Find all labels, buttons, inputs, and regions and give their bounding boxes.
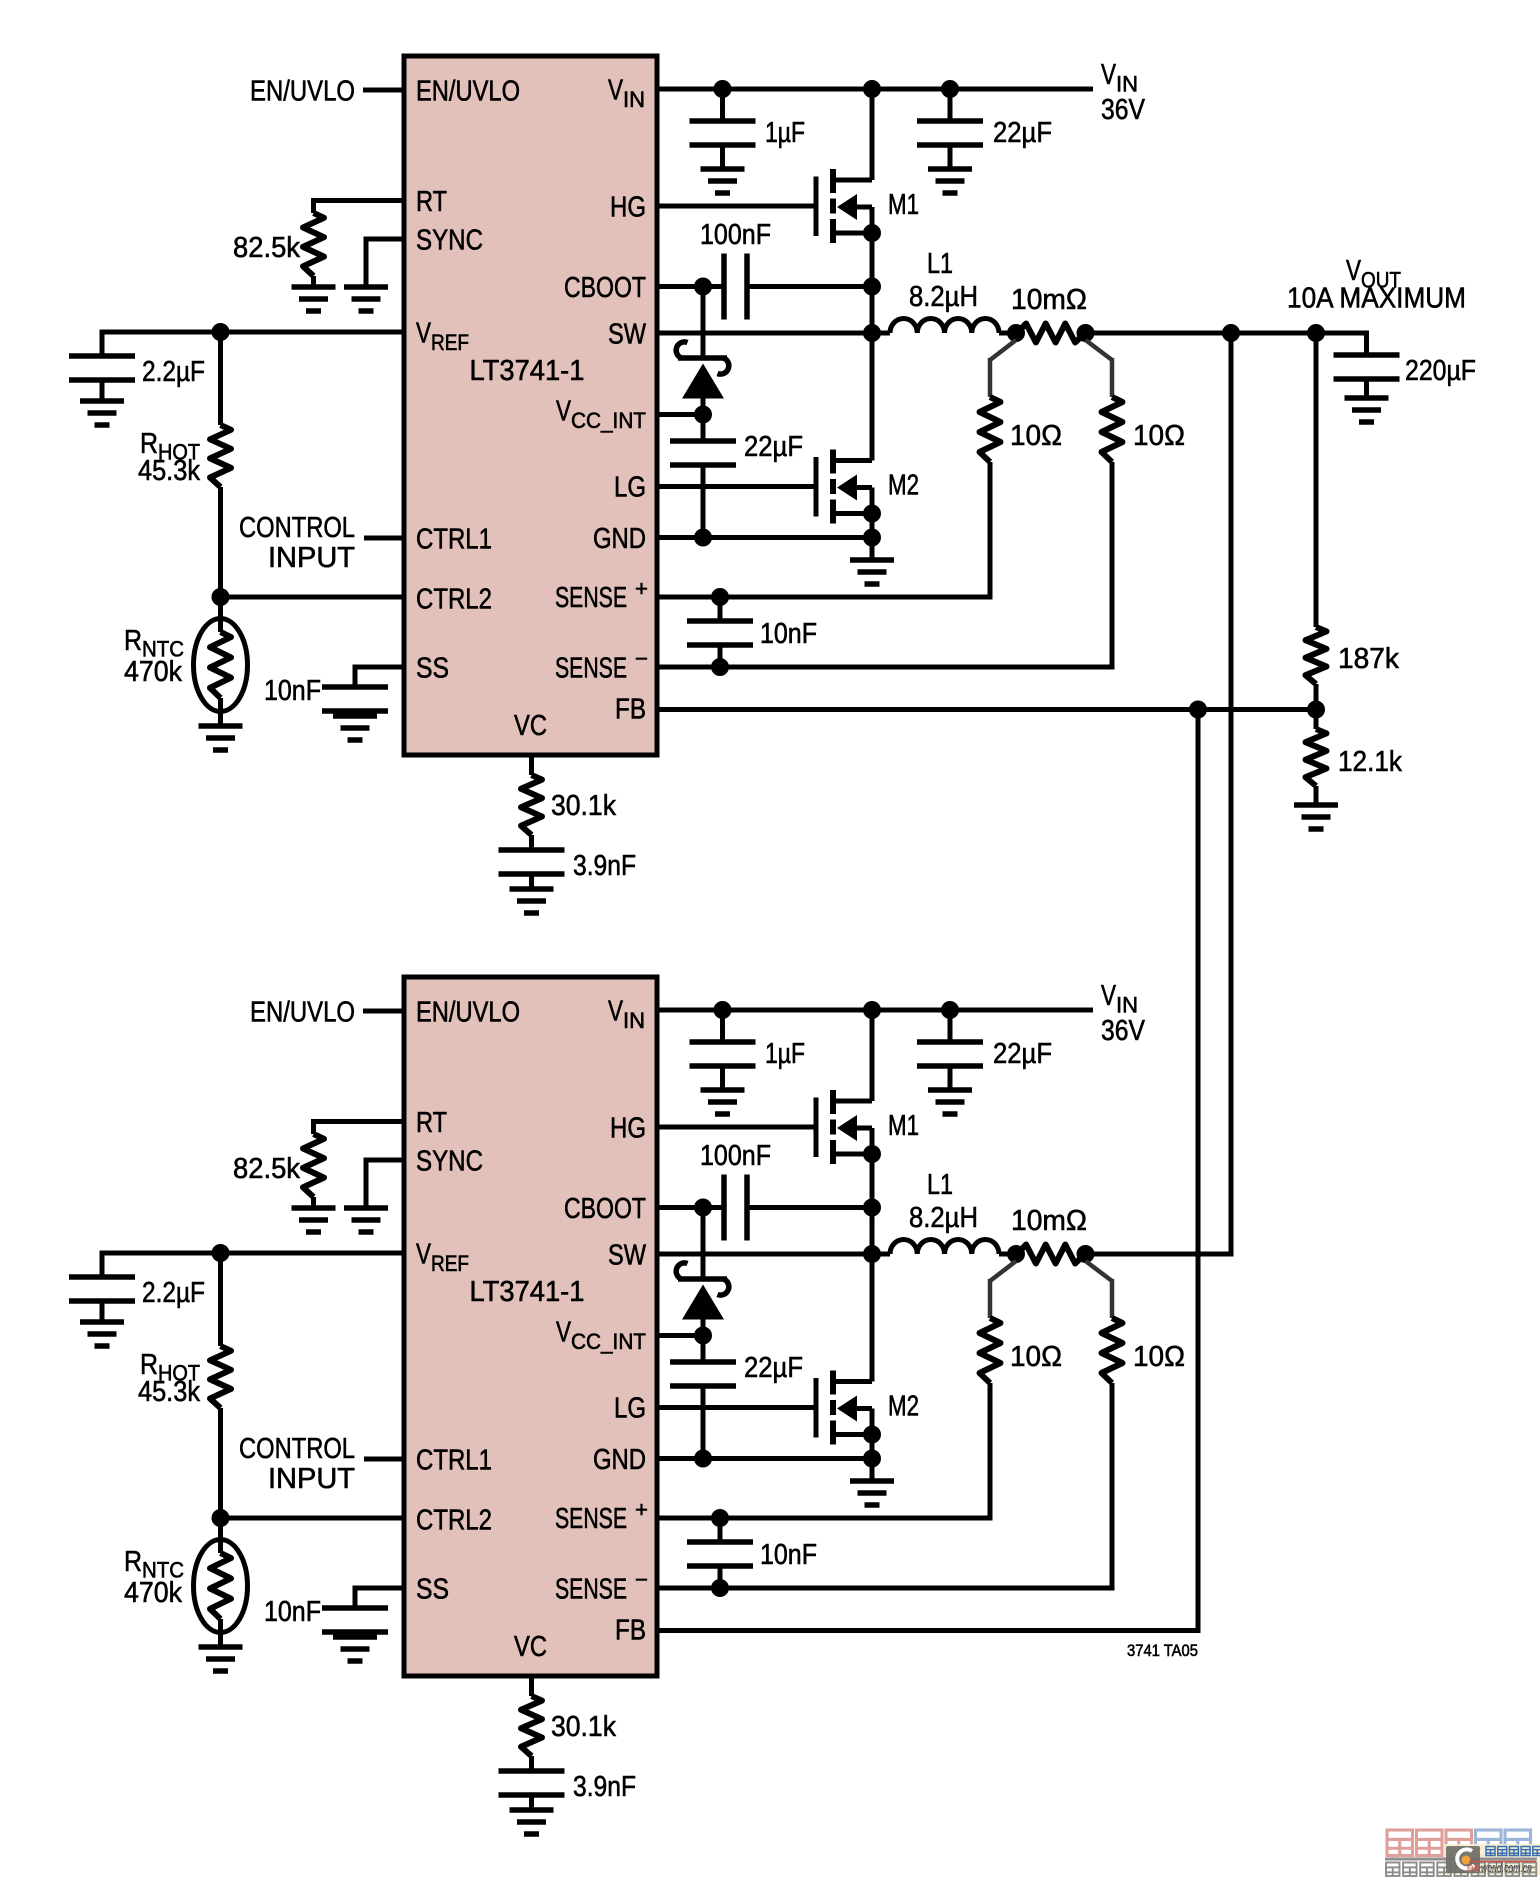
svg-text:world.com.cn: world.com.cn	[1481, 1860, 1532, 1875]
svg-text:1µF: 1µF	[765, 117, 805, 149]
ground for 220uF	[1345, 398, 1389, 422]
svg-text:SENSE: SENSE	[555, 1574, 627, 1606]
wire CBOOT cap to SW node A	[747, 284, 872, 289]
ground for M2 source A	[850, 560, 894, 584]
wire inductor to shunt B	[999, 1252, 1018, 1257]
capacitor C-22uF-inB	[917, 1042, 983, 1066]
diode D1B schottky	[676, 1263, 729, 1320]
wire SENSE+ A	[657, 595, 993, 600]
wire FB link vertical (shared FB net)	[1196, 710, 1201, 1634]
capacitor C-SENSEA 10nF	[687, 621, 753, 645]
svg-text:V: V	[556, 1317, 572, 1349]
svg-text:SENSE: SENSE	[555, 582, 627, 614]
resistor R-SHUNTA 10mohm	[1017, 324, 1085, 343]
capacitor C-1uFB	[690, 1042, 756, 1066]
wire CBOOT A	[657, 284, 724, 289]
svg-text:IN: IN	[623, 1008, 645, 1033]
wire CBOOT B	[657, 1205, 724, 1210]
wire VREF A	[102, 330, 404, 335]
node VCC_INT junction A	[694, 406, 712, 424]
watermark logo mark	[1446, 1846, 1480, 1873]
ground for RT resistor B	[292, 1208, 336, 1232]
svg-text:R: R	[124, 625, 142, 657]
wire VREF to RHOT B	[218, 1253, 223, 1346]
svg-text:45.3k: 45.3k	[138, 1376, 200, 1408]
node VIN junction at M1 drain B	[863, 1001, 881, 1019]
svg-text:36V: 36V	[1101, 1015, 1146, 1047]
wire VIN to 1uF B	[720, 1010, 725, 1042]
inductor L1A 8.2uH	[890, 318, 999, 333]
svg-text:M2: M2	[888, 470, 919, 502]
svg-text:CTRL2: CTRL2	[416, 1505, 492, 1537]
wire 30.1k to 3.9nF A	[529, 835, 534, 850]
wire VIN rail A	[657, 87, 1093, 92]
svg-text:RT: RT	[416, 1107, 447, 1139]
ground for 2.2uF B	[80, 1322, 124, 1346]
wire SS cap to ground B	[353, 1632, 358, 1637]
svg-text:470k: 470k	[124, 1577, 182, 1609]
ground for input 22uF B	[928, 1090, 972, 1114]
wire SENSE+ to 10nF B	[718, 1518, 723, 1542]
wire 12.1k to ground	[1314, 786, 1319, 805]
svg-text:LT3741-1: LT3741-1	[470, 1276, 585, 1308]
node shunt right junction B	[1077, 1245, 1095, 1263]
wire 22uF to ground B	[948, 1066, 953, 1090]
wire VOUT rail	[1086, 331, 1316, 336]
ground for RNTC A	[199, 726, 243, 750]
op-amp/IC UA LT3741-1 body	[404, 56, 657, 755]
svg-text:45.3k: 45.3k	[138, 455, 200, 487]
svg-text:SS: SS	[416, 1574, 449, 1606]
wire 220uF to ground	[1364, 379, 1369, 398]
wire FB node to 12.1k	[1314, 710, 1319, 730]
wire VCC_INT pin B	[657, 1333, 703, 1338]
wire diode anode to VCC_INT A	[701, 399, 706, 442]
svg-text:10nF: 10nF	[760, 618, 817, 650]
wire SENSE- A	[657, 665, 1115, 670]
wire CBOOT to diode cathode B	[701, 1208, 706, 1280]
node VREF junction B	[212, 1244, 230, 1262]
node VIN junction at 22uF B	[941, 1001, 959, 1019]
node SENSE- junction A	[711, 658, 729, 676]
svg-text:V: V	[1101, 980, 1117, 1012]
svg-text:SYNC: SYNC	[416, 1146, 483, 1178]
node CTRL2 junction A	[212, 588, 230, 606]
capacitor C-OUT 220uF	[1334, 355, 1400, 379]
svg-text:22µF: 22µF	[744, 1352, 803, 1384]
wire RT resistor to ground A	[311, 276, 316, 287]
wire RHOT to CTRL2 A	[218, 487, 223, 597]
ground for 2.2uF A	[80, 401, 124, 425]
svg-text:82.5k: 82.5k	[233, 1153, 300, 1185]
resistor R-FB1 187k	[1306, 627, 1327, 684]
wire kelvin left diagonal A	[990, 340, 1016, 360]
svg-text:CONTROL: CONTROL	[239, 1433, 355, 1465]
wire EN/UVLO B	[363, 1009, 404, 1014]
svg-text:GND: GND	[593, 1444, 646, 1476]
resistor R-S1B 10ohm	[980, 1318, 1001, 1383]
ground for SYNC B	[344, 1208, 388, 1232]
svg-text:220µF: 220µF	[1405, 355, 1476, 387]
wire 187k to FB node	[1314, 684, 1319, 710]
wire SW A	[657, 331, 890, 336]
wire LG gate A	[657, 484, 814, 489]
transistor M1A	[816, 169, 872, 243]
node VIN junction at M1 drain A	[863, 80, 881, 98]
svg-text:SW: SW	[608, 1240, 647, 1272]
wire FB B	[657, 1628, 1201, 1633]
wire VREF to 2.2uF B	[100, 1251, 105, 1278]
svg-text:V: V	[1101, 59, 1117, 91]
wire SENSE+ B	[657, 1516, 993, 1521]
svg-text:CC_INT: CC_INT	[571, 1329, 646, 1354]
resistor R-S1A 10ohm	[980, 397, 1001, 462]
ground for SYNC A	[344, 287, 388, 311]
wire VOUT to 187k	[1314, 333, 1319, 627]
svg-text:470k: 470k	[124, 656, 182, 688]
node CBOOT diode junction B	[694, 1199, 712, 1217]
svg-text:IN: IN	[1116, 993, 1138, 1018]
capacitor C-SENSEB 10nF	[687, 1542, 753, 1566]
watermark logo background	[1444, 1844, 1540, 1875]
svg-text:SENSE: SENSE	[555, 1503, 627, 1535]
ground for SS cap A	[333, 716, 377, 740]
svg-text:EN/UVLO: EN/UVLO	[250, 997, 355, 1029]
wire M1 drain to VIN B	[870, 1010, 875, 1101]
svg-text:−: −	[635, 1567, 648, 1592]
watermark divider line	[1385, 1858, 1537, 1861]
wire VREF to RHOT A	[218, 332, 223, 425]
wire bottom output to VOUT link	[1086, 1252, 1234, 1257]
watermark slogan text (gray)	[1386, 1863, 1400, 1877]
capacitor C-VCCA 22uF	[670, 441, 736, 465]
ground for VC network B	[510, 1810, 554, 1834]
wire VOUT link vertical (top output to bottom output)	[1229, 333, 1234, 1257]
wire R-S2 to SENSE- B	[1110, 1383, 1115, 1588]
wire SYNC A	[366, 237, 404, 242]
svg-text:CTRL1: CTRL1	[416, 524, 492, 556]
wire CTRL2 to RNTC A	[218, 597, 223, 632]
wire R-S1 to SENSE+ B	[988, 1383, 993, 1518]
node VOUT junction to link	[1222, 324, 1240, 342]
wire M1 source down to SW B	[870, 1128, 875, 1254]
svg-text:CTRL1: CTRL1	[416, 1445, 492, 1477]
wire RNTC to ground B	[218, 1619, 223, 1647]
wire VC B	[529, 1676, 534, 1696]
wire VIN to 22uF A	[948, 89, 953, 121]
svg-text:10Ω: 10Ω	[1010, 420, 1062, 452]
capacitor C-SSA 10nF	[322, 687, 388, 711]
resistor R-RTB 82.5k	[303, 1134, 324, 1197]
svg-text:LG: LG	[614, 472, 646, 504]
svg-text:LG: LG	[614, 1393, 646, 1425]
diode D1A schottky	[676, 342, 729, 399]
node VIN junction at 1uF B	[714, 1001, 732, 1019]
ground for RNTC B	[199, 1647, 243, 1671]
node GND junction at VCC cap B	[694, 1450, 712, 1468]
wire HG gate A	[657, 204, 814, 209]
capacitor C-22uF-inA	[917, 121, 983, 145]
svg-text:2.2µF: 2.2µF	[142, 356, 205, 388]
svg-text:10nF: 10nF	[760, 1539, 817, 1571]
thermistor R-NTCA 470k	[194, 619, 248, 712]
svg-text:30.1k: 30.1k	[551, 790, 616, 822]
wire HG gate B	[657, 1125, 814, 1130]
wire 2.2uF to ground B	[100, 1301, 105, 1322]
wire CBOOT cap to SW node B	[747, 1205, 872, 1210]
svg-text:EN/UVLO: EN/UVLO	[416, 997, 520, 1029]
svg-text:RT: RT	[416, 186, 447, 218]
resistor R-VCB 30.1k	[521, 1696, 542, 1756]
capacitor C-VCA 3.9nF	[499, 850, 565, 874]
svg-text:SS: SS	[416, 653, 449, 685]
svg-text:10A MAXIMUM: 10A MAXIMUM	[1287, 283, 1466, 315]
wire M1 drain to VIN A	[870, 89, 875, 180]
wire CTRL2 A	[221, 595, 405, 600]
svg-text:HG: HG	[610, 192, 646, 224]
ground for 12.1k	[1294, 805, 1338, 829]
wire CTRL2 to RNTC B	[218, 1518, 223, 1553]
wire VREF to 2.2uF A	[100, 330, 105, 357]
node M1 source junction B	[863, 1145, 881, 1163]
node CBOOT cap right junction B	[863, 1199, 881, 1217]
wire CTRL1 B	[364, 1457, 404, 1462]
svg-text:V: V	[556, 396, 572, 428]
svg-text:+: +	[635, 1497, 648, 1522]
wire RT resistor to ground B	[311, 1197, 316, 1208]
svg-text:10mΩ: 10mΩ	[1011, 1205, 1087, 1237]
wire M2 drain to SW A	[870, 333, 875, 461]
svg-text:SENSE: SENSE	[555, 653, 627, 685]
capacitor C-VCCB 22uF	[670, 1362, 736, 1386]
svg-text:CBOOT: CBOOT	[564, 272, 646, 304]
resistor R-RTA 82.5k	[303, 213, 324, 276]
svg-text:EN/UVLO: EN/UVLO	[250, 76, 355, 108]
wire 10nF to SENSE- B	[718, 1566, 723, 1588]
wire VCC cap to GND rail A	[701, 465, 706, 538]
node CBOOT diode junction A	[694, 278, 712, 296]
capacitor C-VCB 3.9nF	[499, 1771, 565, 1795]
wire 3.9nF to ground B	[529, 1795, 534, 1810]
node CTRL2 junction B	[212, 1509, 230, 1527]
node FB divider junction A	[1307, 701, 1325, 719]
wire CTRL2 B	[221, 1516, 405, 1521]
transistor M2B	[816, 1371, 872, 1445]
svg-text:VC: VC	[514, 1631, 547, 1663]
svg-text:187k: 187k	[1338, 643, 1399, 675]
svg-text:36V: 36V	[1101, 94, 1146, 126]
svg-text:R: R	[124, 1546, 142, 1578]
capacitor C-VREFB 2.2uF	[69, 1277, 135, 1301]
svg-text:M2: M2	[888, 1391, 919, 1423]
svg-text:2.2µF: 2.2µF	[142, 1277, 205, 1309]
wire 30.1k to 3.9nF B	[529, 1756, 534, 1771]
node M2 source junction A	[863, 505, 881, 523]
node VOUT junction to divider	[1307, 324, 1325, 342]
wire RT A	[314, 198, 405, 203]
wire M2 source to ground B	[870, 1409, 875, 1459]
watermark brand text (pink)	[1387, 1830, 1413, 1856]
svg-text:CONTROL: CONTROL	[239, 512, 355, 544]
svg-text:22µF: 22µF	[993, 1038, 1052, 1070]
wire SW B	[657, 1252, 890, 1257]
node VIN junction at 22uF A	[941, 80, 959, 98]
wire SS A	[355, 665, 404, 670]
svg-text:IN: IN	[623, 87, 645, 112]
node SENSE+ junction B	[711, 1509, 729, 1527]
node M1 source junction A	[863, 224, 881, 242]
svg-text:GND: GND	[593, 523, 646, 555]
wire kelvin right diagonal B	[1086, 1261, 1113, 1281]
op-amp/IC UB LT3741-1 body	[404, 977, 657, 1676]
wire diode anode to VCC_INT B	[701, 1320, 706, 1363]
wire CBOOT to diode cathode A	[701, 287, 706, 359]
svg-text:V: V	[416, 1239, 432, 1271]
ground for RT resistor A	[292, 287, 336, 311]
svg-text:L1: L1	[927, 248, 953, 280]
wire SYNC B	[366, 1158, 404, 1163]
wire M2 source to ground A	[870, 488, 875, 538]
svg-text:REF: REF	[431, 330, 469, 355]
svg-text:V: V	[608, 75, 624, 107]
node M2 source at GND rail A	[863, 529, 881, 547]
node shunt left junction A	[1007, 324, 1025, 342]
svg-text:IN: IN	[1116, 72, 1138, 97]
svg-text:1µF: 1µF	[765, 1038, 805, 1070]
node M2 source at GND rail B	[863, 1450, 881, 1468]
svg-text:SYNC: SYNC	[416, 225, 483, 257]
capacitor C-BOOTB 100nF	[724, 1175, 747, 1241]
watermark brand text (blue)	[1476, 1830, 1502, 1856]
svg-text:INPUT: INPUT	[268, 1463, 355, 1495]
wire VIN to 22uF B	[948, 1010, 953, 1042]
watermark logo text line1 (blue CJK)	[1486, 1847, 1495, 1856]
wire M1 source down to SW A	[870, 207, 875, 333]
svg-text:100nF: 100nF	[700, 219, 771, 251]
svg-text:3.9nF: 3.9nF	[573, 850, 636, 882]
capacitor C-VREFA 2.2uF	[69, 356, 135, 380]
svg-text:REF: REF	[431, 1251, 469, 1276]
wire RT B	[314, 1119, 405, 1124]
svg-text:10nF: 10nF	[264, 675, 321, 707]
svg-text:CTRL2: CTRL2	[416, 584, 492, 616]
wire LG gate B	[657, 1405, 814, 1410]
ground for M2 source B	[850, 1481, 894, 1505]
svg-text:VC: VC	[514, 710, 547, 742]
wire 1uF to ground A	[720, 145, 725, 169]
capacitor C-1uFA	[690, 121, 756, 145]
svg-text:CC_INT: CC_INT	[571, 408, 646, 433]
wire SENSE+ to 10nF A	[718, 597, 723, 621]
wire R-S1 to SENSE+ A	[988, 462, 993, 597]
svg-text:SW: SW	[608, 319, 647, 351]
svg-text:V: V	[416, 318, 432, 350]
node VCC_INT junction B	[694, 1327, 712, 1345]
node shunt left junction B	[1007, 1245, 1025, 1263]
wire 10nF to SENSE- A	[718, 645, 723, 667]
svg-text:FB: FB	[615, 1615, 646, 1647]
node GND junction at VCC cap A	[694, 529, 712, 547]
resistor R-S2A 10ohm	[1102, 397, 1123, 462]
ground for VC network A	[510, 889, 554, 913]
node shunt right junction A	[1077, 324, 1095, 342]
ground for input 22uF A	[928, 169, 972, 193]
node VIN junction at 1uF A	[714, 80, 732, 98]
wire bottom FB corner	[1196, 1631, 1201, 1634]
thermistor R-NTCB 470k	[194, 1540, 248, 1633]
transistor M2A	[816, 450, 872, 524]
wire GND pin rail B	[657, 1456, 872, 1461]
wire RHOT to CTRL2 B	[218, 1408, 223, 1518]
svg-text:M1: M1	[888, 189, 919, 221]
wire VCC_INT pin A	[657, 412, 703, 417]
node SW junction A	[863, 324, 881, 342]
resistor R-S2B 10ohm	[1102, 1318, 1123, 1383]
svg-text:L1: L1	[927, 1169, 953, 1201]
wire VCC cap to GND rail B	[701, 1386, 706, 1459]
node M2 source junction B	[863, 1426, 881, 1444]
svg-text:10Ω: 10Ω	[1133, 420, 1185, 452]
svg-text:8.2µH: 8.2µH	[909, 281, 978, 313]
resistor R-FB2 12.1k	[1306, 729, 1327, 786]
wire RNTC to ground A	[218, 698, 223, 726]
svg-text:FB: FB	[615, 694, 646, 726]
svg-text:22µF: 22µF	[744, 431, 803, 463]
wire inductor to shunt A	[999, 331, 1018, 336]
svg-text:22µF: 22µF	[993, 117, 1052, 149]
svg-text:INPUT: INPUT	[268, 542, 355, 574]
wire M2 drain to SW B	[870, 1254, 875, 1382]
capacitor C-SSB 10nF	[322, 1608, 388, 1632]
svg-text:82.5k: 82.5k	[233, 232, 300, 264]
wire SS B	[355, 1586, 404, 1591]
wire kelvin left diagonal B	[990, 1261, 1016, 1281]
wire 1uF to ground B	[720, 1066, 725, 1090]
capacitor C-BOOTA 100nF	[724, 254, 747, 320]
wire SENSE- B	[657, 1586, 1115, 1591]
wire 3.9nF to ground A	[529, 874, 534, 889]
wire GND pin rail A	[657, 535, 872, 540]
resistor R-VCA 30.1k	[521, 775, 542, 835]
wire VIN rail B	[657, 1008, 1093, 1013]
resistor R-HOTB 45.3k	[210, 1346, 231, 1408]
svg-text:ee: ee	[1467, 1860, 1480, 1875]
wire VC A	[529, 755, 534, 775]
wire 2.2uF to ground A	[100, 380, 105, 401]
svg-text:LT3741-1: LT3741-1	[470, 355, 585, 387]
svg-text:3741 TA05: 3741 TA05	[1127, 1641, 1198, 1660]
svg-text:V: V	[608, 996, 624, 1028]
node SENSE- junction B	[711, 1579, 729, 1597]
svg-text:10Ω: 10Ω	[1133, 1341, 1185, 1373]
wire SS cap to ground A	[353, 711, 358, 716]
svg-text:10mΩ: 10mΩ	[1011, 284, 1087, 316]
ground for 1uF B	[701, 1090, 745, 1114]
svg-text:3.9nF: 3.9nF	[573, 1771, 636, 1803]
svg-text:CBOOT: CBOOT	[564, 1193, 646, 1225]
node VREF junction A	[212, 323, 230, 341]
svg-text:HG: HG	[610, 1113, 646, 1145]
node FB link junction A	[1189, 701, 1207, 719]
ground for SS cap B	[333, 1637, 377, 1661]
wire VIN to 1uF A	[720, 89, 725, 121]
wire VREF B	[102, 1251, 404, 1256]
wire M2 ground stub B	[870, 1459, 875, 1482]
wire CTRL1 A	[364, 536, 404, 541]
svg-text:30.1k: 30.1k	[551, 1711, 616, 1743]
wire M2 ground stub A	[870, 538, 875, 561]
wire kelvin right diagonal A	[1086, 340, 1113, 360]
